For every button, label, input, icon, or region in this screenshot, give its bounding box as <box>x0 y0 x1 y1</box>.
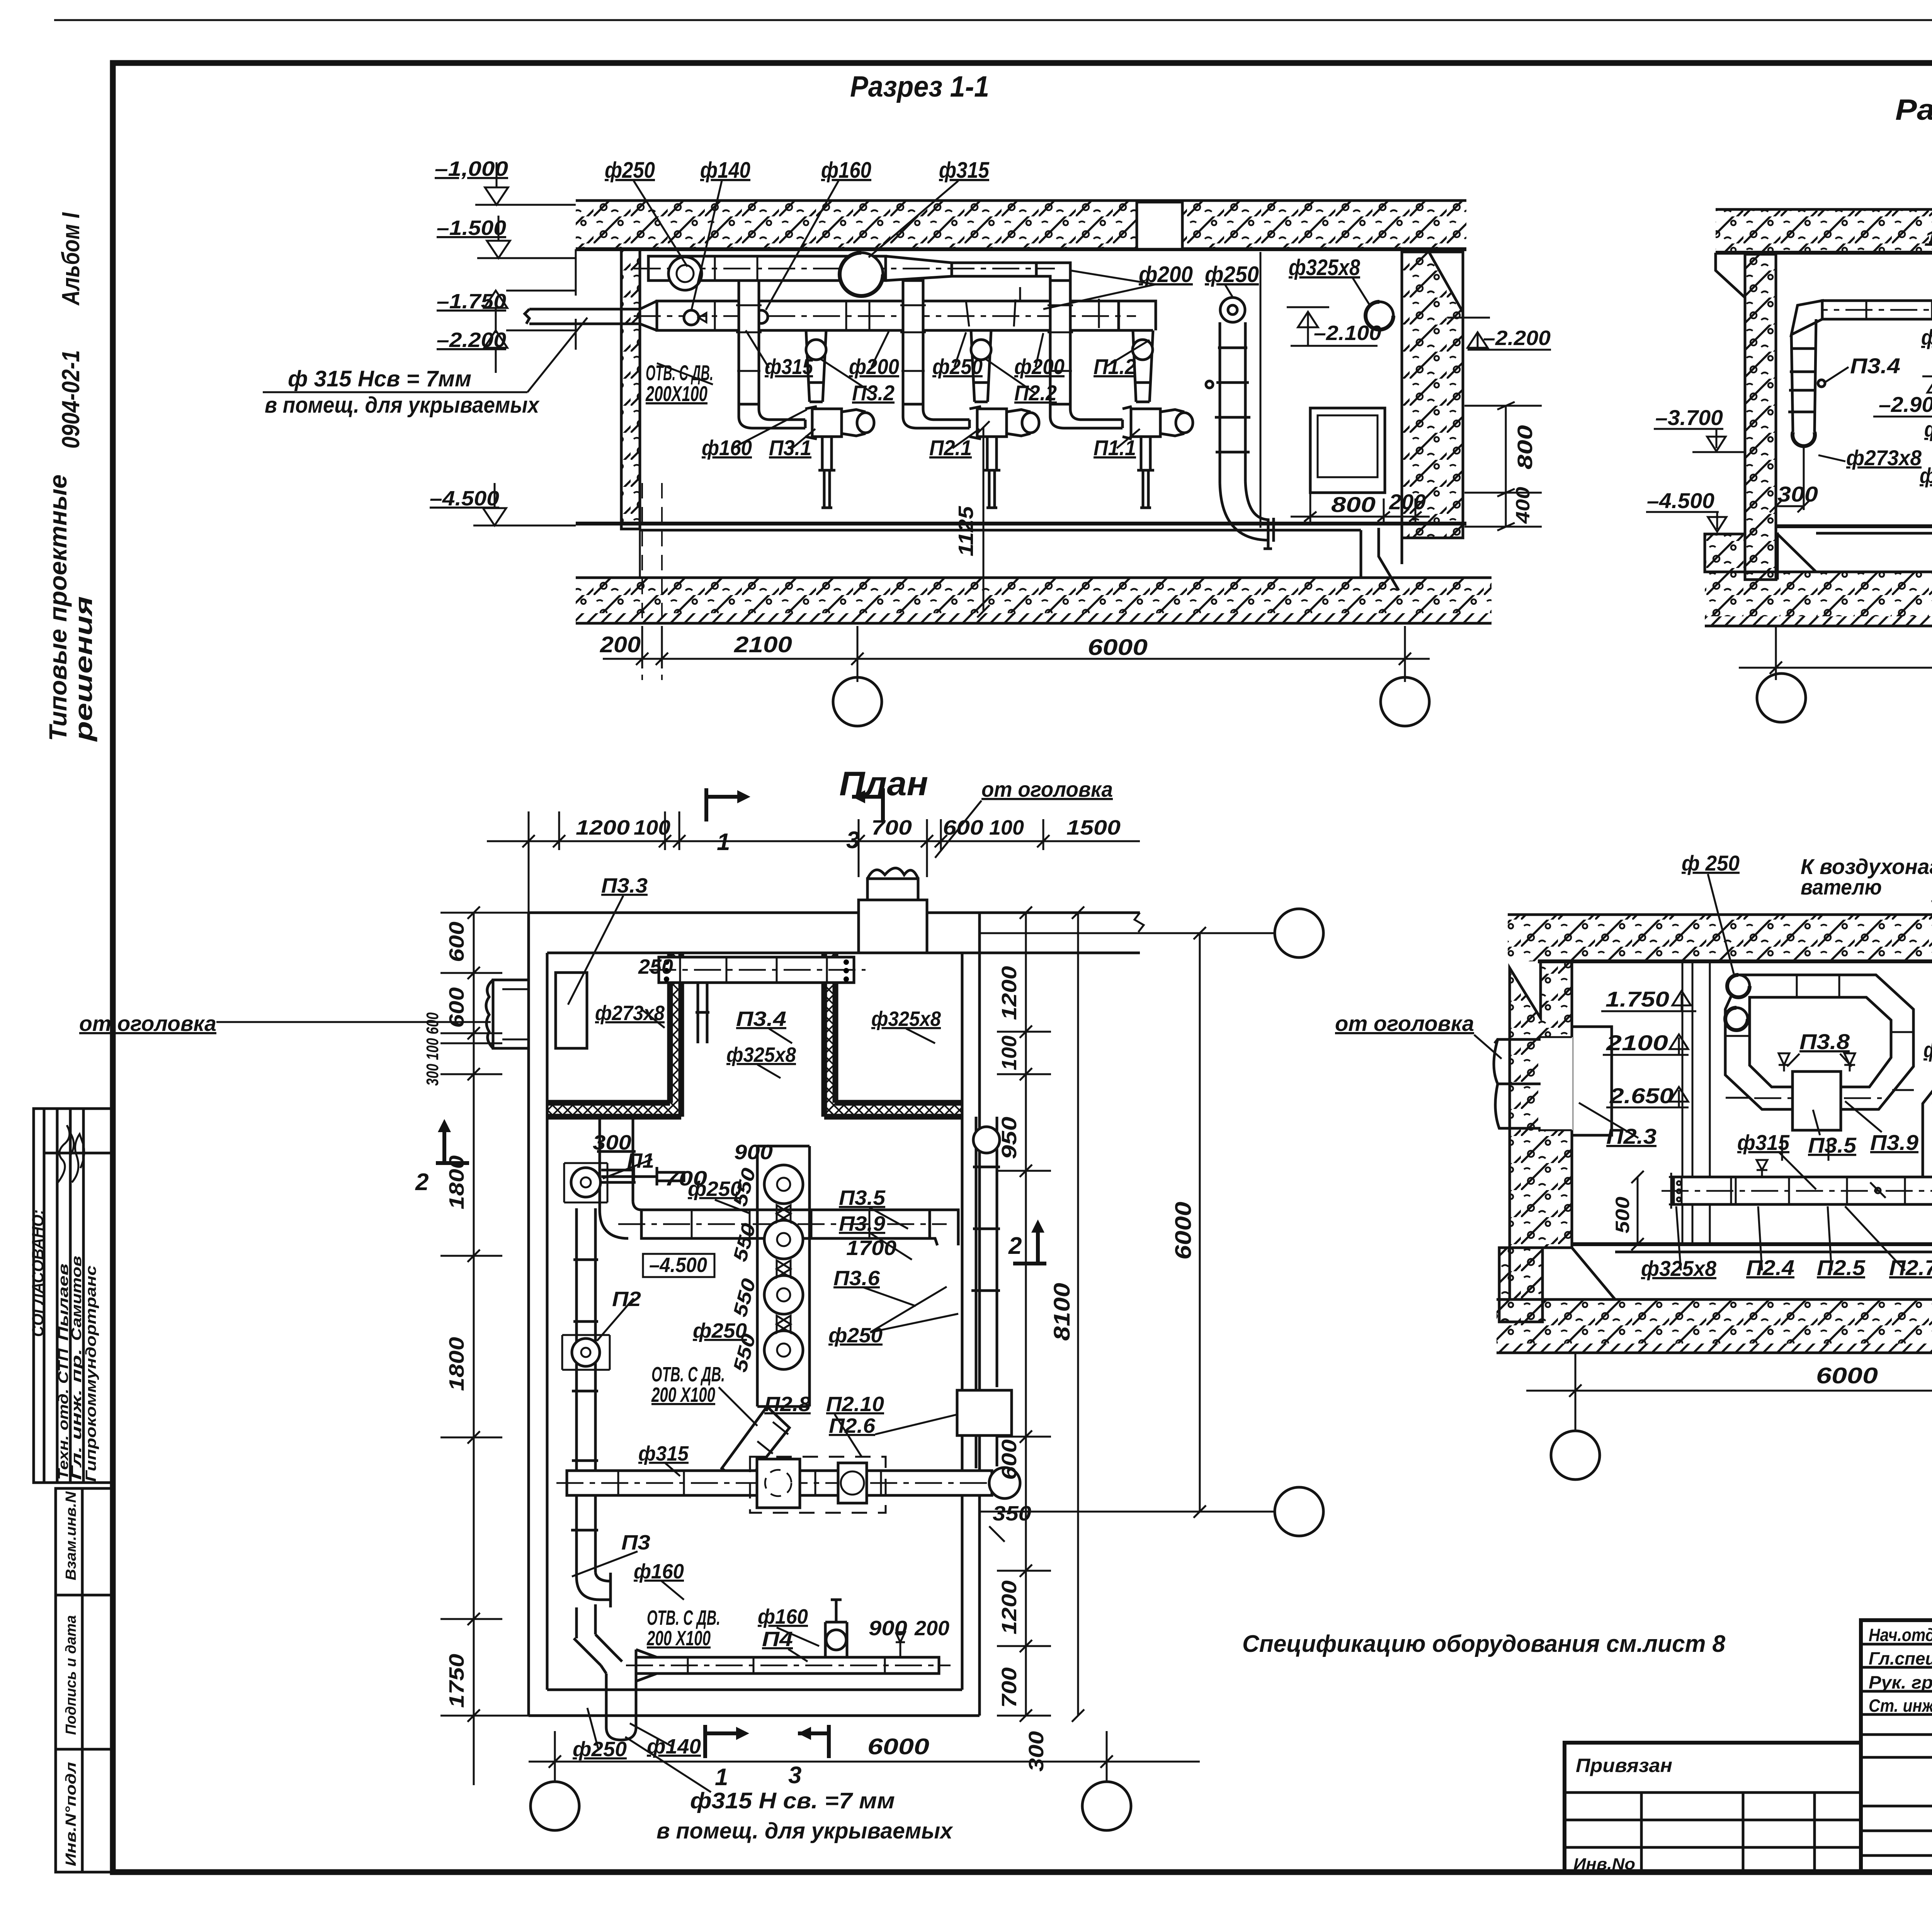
svg-text:100: 100 <box>998 1036 1021 1070</box>
svg-text:1.750: 1.750 <box>1605 987 1669 1011</box>
svg-text:200 X100: 200 X100 <box>646 1627 711 1650</box>
svg-text:ф250: ф250 <box>828 1324 883 1347</box>
svg-text:–2.200: –2.200 <box>1483 327 1551 350</box>
svg-text:ф 250: ф 250 <box>1682 851 1740 875</box>
svg-text:от оголовка: от оголовка <box>79 1011 216 1036</box>
svg-text:П2.4: П2.4 <box>1746 1255 1794 1280</box>
svg-text:П2.5: П2.5 <box>1817 1255 1866 1280</box>
svg-text:–1.500: –1.500 <box>437 216 506 240</box>
svg-text:П3.4: П3.4 <box>1850 354 1900 378</box>
svg-text:1: 1 <box>715 1764 728 1791</box>
svg-text:П3.9: П3.9 <box>839 1212 885 1235</box>
svg-text:ф200: ф200 <box>849 354 899 379</box>
svg-text:Подпись и дата: Подпись и дата <box>63 1615 79 1735</box>
svg-text:ф140: ф140 <box>700 158 750 183</box>
svg-text:6000: 6000 <box>1088 635 1148 660</box>
svg-text:П2.8: П2.8 <box>764 1393 811 1416</box>
svg-text:ф315: ф315 <box>939 158 990 183</box>
svg-text:–4.500: –4.500 <box>1647 488 1714 513</box>
svg-text:П1.1: П1.1 <box>1094 435 1136 460</box>
svg-text:Рук. гр.: Рук. гр. <box>1869 1672 1932 1692</box>
svg-text:200: 200 <box>914 1617 949 1640</box>
svg-text:П3.9: П3.9 <box>1870 1130 1918 1155</box>
svg-text:Нач.отд: Нач.отд <box>1869 1625 1932 1645</box>
svg-text:950: 950 <box>998 1117 1021 1159</box>
svg-text:ф160: ф160 <box>758 1605 808 1628</box>
svg-text:1750: 1750 <box>445 1654 468 1708</box>
svg-text:100: 100 <box>989 816 1024 839</box>
svg-text:П3: П3 <box>621 1531 650 1554</box>
svg-text:–2.100: –2.100 <box>1314 321 1381 345</box>
svg-text:0904-02-1: 0904-02-1 <box>57 350 85 449</box>
svg-text:П2.3: П2.3 <box>1606 1124 1656 1148</box>
svg-text:–4.500: –4.500 <box>649 1253 707 1277</box>
svg-text:Инв.N°подл: Инв.N°подл <box>63 1762 79 1866</box>
svg-text:2: 2 <box>1008 1233 1022 1259</box>
svg-text:300: 300 <box>1025 1731 1048 1772</box>
svg-text:1.750: 1.750 <box>1924 226 1932 250</box>
svg-text:ф273х8: ф273х8 <box>595 1002 665 1025</box>
svg-text:Привязан: Привязан <box>1576 1755 1672 1776</box>
svg-text:вателю: вателю <box>1801 875 1882 899</box>
svg-text:300: 300 <box>593 1131 631 1154</box>
svg-text:П3.4: П3.4 <box>736 1007 786 1031</box>
svg-text:решения: решения <box>70 596 97 742</box>
svg-text:900: 900 <box>734 1141 773 1164</box>
svg-text:600: 600 <box>445 987 468 1028</box>
svg-text:ф250: ф250 <box>1205 262 1259 287</box>
svg-text:П3.5: П3.5 <box>1808 1133 1857 1157</box>
svg-text:Гипрокоммундортранс: Гипрокоммундортранс <box>83 1265 99 1482</box>
svg-text:Инв.No: Инв.No <box>1573 1855 1635 1873</box>
svg-text:200: 200 <box>600 632 641 657</box>
svg-text:ф160: ф160 <box>634 1560 684 1583</box>
svg-text:700: 700 <box>871 816 912 839</box>
svg-text:Разрез 1-1: Разрез 1-1 <box>850 70 989 103</box>
svg-text:Ст. инж.: Ст. инж. <box>1869 1696 1932 1716</box>
svg-text:350: 350 <box>993 1502 1031 1525</box>
svg-text:600: 600 <box>445 922 468 962</box>
svg-text:П3.3: П3.3 <box>601 874 648 897</box>
svg-text:300: 300 <box>1777 482 1818 506</box>
svg-text:ф160: ф160 <box>821 158 871 183</box>
svg-text:ф325х8: ф325х8 <box>1289 255 1361 280</box>
svg-text:800: 800 <box>1514 425 1537 469</box>
svg-text:–3.700: –3.700 <box>1655 405 1723 430</box>
svg-text:ОТВ. С ДВ.: ОТВ. С ДВ. <box>647 1606 720 1629</box>
svg-text:Взам.инв.N: Взам.инв.N <box>63 1491 79 1580</box>
svg-text:П3.5: П3.5 <box>839 1186 886 1209</box>
svg-text:1125: 1125 <box>954 506 978 556</box>
svg-text:ф125: ф125 <box>1920 463 1932 488</box>
svg-text:1800: 1800 <box>445 1337 468 1391</box>
svg-text:200X100: 200X100 <box>645 381 707 406</box>
svg-text:1500: 1500 <box>1066 816 1121 839</box>
svg-text:СОГЛАСОВАНО:: СОГЛАСОВАНО: <box>29 1209 47 1337</box>
svg-text:ф140: ф140 <box>647 1735 701 1758</box>
svg-text:П1.2: П1.2 <box>1094 354 1136 379</box>
svg-text:1200: 1200 <box>576 816 630 839</box>
svg-text:1200: 1200 <box>998 1580 1021 1634</box>
svg-text:Спецификацию оборудования см: Спецификацию оборудования см.лист 8 <box>1242 1631 1726 1657</box>
svg-text:ф 250: ф 250 <box>1923 1037 1932 1062</box>
svg-text:ф250: ф250 <box>573 1738 627 1761</box>
svg-text:2100: 2100 <box>1606 1031 1668 1055</box>
svg-text:ОТВ. С ДВ.: ОТВ. С ДВ. <box>651 1363 725 1386</box>
svg-text:2: 2 <box>415 1169 429 1196</box>
svg-text:–4.500: –4.500 <box>430 487 499 510</box>
svg-text:П3.8: П3.8 <box>1799 1029 1850 1054</box>
svg-text:900: 900 <box>869 1617 907 1640</box>
svg-text:2100: 2100 <box>734 632 792 657</box>
svg-text:6000: 6000 <box>1816 1363 1878 1388</box>
svg-text:ф250: ф250 <box>1921 325 1932 349</box>
svg-text:ф125: ф125 <box>1924 417 1932 441</box>
svg-text:400: 400 <box>1512 487 1534 524</box>
svg-text:800: 800 <box>1331 492 1376 517</box>
svg-text:ф315: ф315 <box>765 354 813 379</box>
svg-text:ф273х8: ф273х8 <box>1846 446 1922 470</box>
svg-text:от оголовка: от оголовка <box>981 777 1113 801</box>
svg-text:Гл. инж. пр.: Гл. инж. пр. <box>68 1349 84 1480</box>
svg-text:6000: 6000 <box>867 1734 929 1759</box>
svg-text:ф160: ф160 <box>702 435 752 460</box>
svg-text:600: 600 <box>998 1439 1021 1480</box>
svg-text:2.650: 2.650 <box>1609 1083 1673 1108</box>
svg-text:700: 700 <box>665 1167 707 1190</box>
svg-text:в помещ. для укрываемых: в помещ. для укрываемых <box>265 393 540 418</box>
svg-text:ф 315 Нсв = 7мм: ф 315 Нсв = 7мм <box>288 366 471 391</box>
svg-text:100: 100 <box>634 816 670 839</box>
svg-text:1700: 1700 <box>846 1236 896 1260</box>
svg-text:500: 500 <box>1612 1197 1633 1233</box>
svg-text:ф325х8: ф325х8 <box>871 1007 941 1031</box>
svg-text:600: 600 <box>943 816 983 839</box>
svg-text:1800: 1800 <box>445 1155 468 1209</box>
svg-text:300 100 600: 300 100 600 <box>423 1012 442 1086</box>
svg-text:от оголовка: от оголовка <box>1335 1011 1474 1036</box>
svg-text:Гл.спец: Гл.спец <box>1869 1648 1932 1668</box>
svg-text:200: 200 <box>1389 490 1426 514</box>
svg-text:–2.900: –2.900 <box>1879 392 1932 417</box>
svg-text:ф315: ф315 <box>638 1442 689 1465</box>
svg-text:6000: 6000 <box>1171 1202 1196 1260</box>
svg-text:ф315: ф315 <box>1737 1130 1790 1155</box>
svg-text:1200: 1200 <box>998 966 1021 1020</box>
svg-text:Альбом I: Альбом I <box>57 212 85 306</box>
svg-text:П4: П4 <box>762 1628 793 1651</box>
svg-text:200 X100: 200 X100 <box>651 1383 715 1406</box>
svg-text:Самитов: Самитов <box>68 1256 84 1341</box>
svg-text:ф325х8: ф325х8 <box>726 1043 796 1066</box>
svg-text:ф315 Н св. =7 мм: ф315 Н св. =7 мм <box>690 1788 895 1813</box>
svg-text:700: 700 <box>998 1667 1021 1708</box>
svg-text:3: 3 <box>788 1762 801 1789</box>
svg-text:П3.6: П3.6 <box>833 1267 880 1290</box>
svg-text:ф250: ф250 <box>605 158 655 183</box>
svg-text:250: 250 <box>638 955 673 978</box>
svg-text:Разрез 2-2: Разрез 2-2 <box>1895 94 1932 126</box>
svg-text:ф200: ф200 <box>1014 354 1065 379</box>
svg-text:П3.1: П3.1 <box>769 435 811 460</box>
svg-text:П2.10: П2.10 <box>826 1393 884 1416</box>
svg-text:в помещ. для укрываемых: в помещ. для укрываемых <box>656 1818 954 1844</box>
svg-text:Типовые проектные: Типовые проектные <box>44 474 72 741</box>
svg-text:8100: 8100 <box>1049 1283 1075 1341</box>
svg-text:ф325х8: ф325х8 <box>1641 1256 1717 1281</box>
